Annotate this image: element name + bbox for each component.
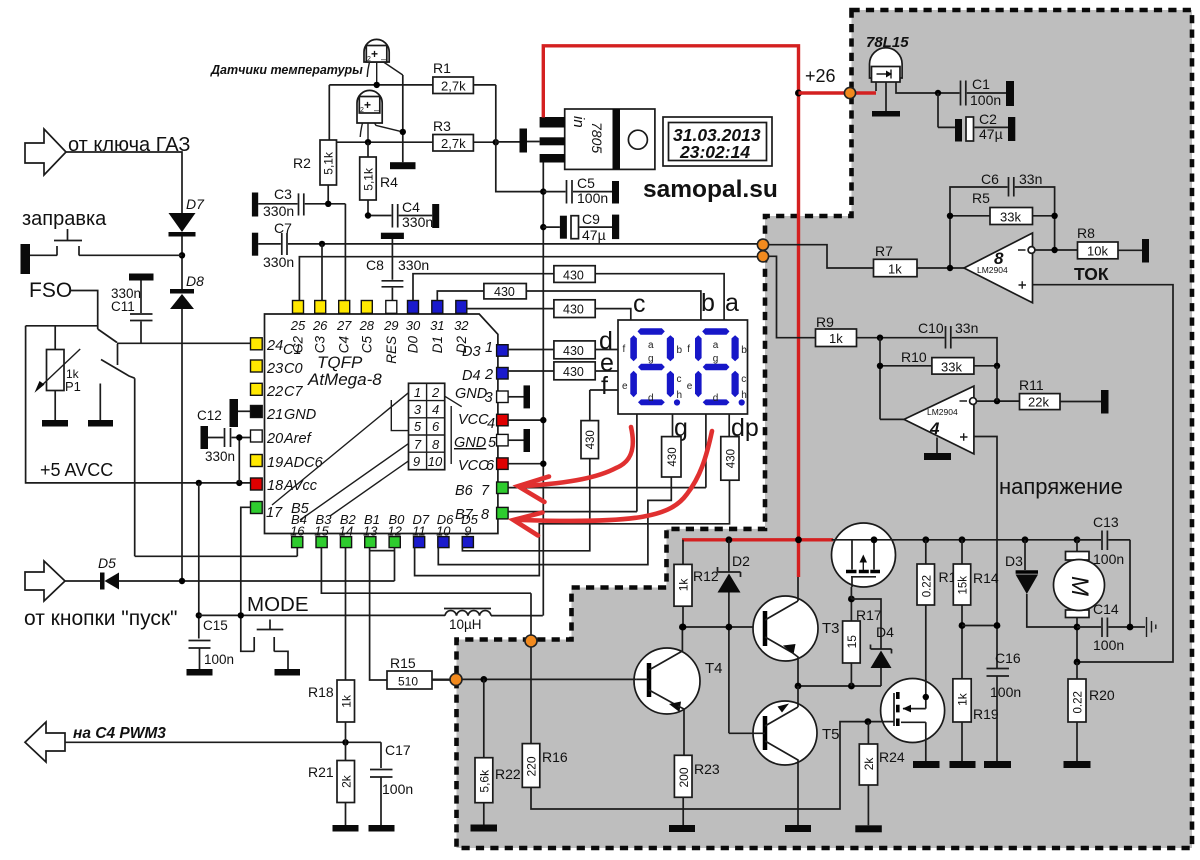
RES line to connector xyxy=(391,400,408,431)
capacitor C4 xyxy=(365,199,439,230)
svg-text:+: + xyxy=(364,98,371,112)
svg-text:R16: R16 xyxy=(542,749,568,765)
op8 output wire xyxy=(1035,249,1078,251)
svg-text:R11: R11 xyxy=(1019,377,1044,393)
resistor R17 xyxy=(843,596,882,686)
diode D3 xyxy=(1005,540,1077,627)
potentiometer P1 xyxy=(35,349,81,394)
svg-text:f: f xyxy=(623,344,626,355)
svg-text:LM2904: LM2904 xyxy=(977,265,1008,275)
connector diagonal pointers xyxy=(272,393,462,520)
svg-text:C4: C4 xyxy=(337,336,352,353)
T3 base wire xyxy=(683,626,765,628)
svg-text:D5: D5 xyxy=(98,555,116,571)
resistor R14 xyxy=(953,540,999,679)
ground bar under S2 xyxy=(88,420,113,427)
svg-text:C8: C8 xyxy=(366,257,384,273)
resistor 430 d (D3) xyxy=(508,341,618,359)
svg-text:1k: 1k xyxy=(956,692,970,706)
resistor R21 xyxy=(308,742,359,831)
svg-text:+26: +26 xyxy=(805,66,836,86)
svg-text:FSO: FSO xyxy=(29,279,72,302)
svg-text:D8: D8 xyxy=(186,273,204,289)
svg-text:C3: C3 xyxy=(313,336,328,354)
svg-text:VCC: VCC xyxy=(458,458,489,474)
7seg digit 1 segments xyxy=(630,328,680,405)
svg-text:0.22: 0.22 xyxy=(1073,691,1085,713)
svg-text:2k: 2k xyxy=(862,757,876,771)
potentiometer P1 top wire xyxy=(26,326,98,350)
+26 rail in power stage xyxy=(833,539,1130,541)
temperature sensor VT2 xyxy=(357,90,403,142)
capacitor C1 xyxy=(935,76,1014,108)
svg-text:C6: C6 xyxy=(981,171,999,187)
svg-text:D3: D3 xyxy=(1005,553,1023,569)
capacitor C15 xyxy=(187,618,235,676)
resistor R22 xyxy=(471,679,521,831)
svg-text:6: 6 xyxy=(486,458,495,474)
date display box xyxy=(663,117,772,166)
svg-text:9: 9 xyxy=(413,454,420,469)
capacitor C3 xyxy=(252,186,346,219)
rail junction dots xyxy=(726,536,733,543)
svg-text:6: 6 xyxy=(432,419,440,434)
svg-text:R20: R20 xyxy=(1089,687,1115,703)
svg-text:20: 20 xyxy=(266,431,283,447)
chip body U2 xyxy=(265,314,498,534)
svg-text:D4: D4 xyxy=(462,368,481,384)
svg-text:C13: C13 xyxy=(1093,514,1119,530)
inductor line to +5 vertical xyxy=(491,615,543,617)
svg-text:c: c xyxy=(741,374,746,385)
nodes on T3/T5 mid rail xyxy=(795,683,802,690)
node R22 on T4 base wire xyxy=(480,676,487,683)
svg-text:ТОК: ТОК xyxy=(1074,264,1109,284)
resistor R19 xyxy=(950,679,999,768)
gray region dashed border xyxy=(457,10,1193,848)
resistor R9 xyxy=(763,256,880,346)
temperature sensor VT1 xyxy=(364,39,403,85)
svg-text:430: 430 xyxy=(563,365,584,379)
svg-text:+5 AVCC: +5 AVCC xyxy=(40,460,113,480)
op8 plus input sense wire xyxy=(1033,285,1174,662)
svg-text:f: f xyxy=(687,344,690,355)
svg-text:C7: C7 xyxy=(274,220,292,236)
svg-text:C0: C0 xyxy=(284,361,303,377)
resistor R15 xyxy=(370,547,456,689)
svg-text:–: – xyxy=(374,105,379,115)
resistor R10 xyxy=(877,338,1000,420)
svg-text:C1: C1 xyxy=(972,76,990,92)
svg-text:C16: C16 xyxy=(995,650,1021,666)
svg-text:100n: 100n xyxy=(970,92,1001,108)
svg-text:R19: R19 xyxy=(973,706,999,722)
svg-text:R9: R9 xyxy=(816,314,834,330)
svg-text:f: f xyxy=(601,372,608,400)
MODE / inductor feed line xyxy=(199,614,445,616)
svg-text:+: + xyxy=(371,47,378,61)
svg-text:Датчики температуры: Датчики температуры xyxy=(210,63,363,77)
svg-text:100n: 100n xyxy=(1093,551,1124,567)
input arrow "от ключа ГАЗ" xyxy=(25,129,66,175)
svg-text:220: 220 xyxy=(525,756,539,776)
svg-text:330n: 330n xyxy=(398,257,429,273)
svg-text:e: e xyxy=(622,381,628,392)
ground bar sensors xyxy=(390,162,416,169)
FSO switch blade xyxy=(98,329,118,365)
ground bar T5 xyxy=(785,825,811,832)
svg-text:5,6k: 5,6k xyxy=(477,769,491,793)
svg-text:330n: 330n xyxy=(402,214,433,230)
svg-text:10: 10 xyxy=(428,454,443,469)
orange junction inductor/R16 xyxy=(525,635,537,647)
resistor R3 xyxy=(337,118,499,151)
capacitor C11 xyxy=(111,274,154,344)
7seg internal segment letters digit2 xyxy=(687,340,748,404)
svg-text:C1: C1 xyxy=(283,342,302,358)
resistor R5 xyxy=(947,190,1058,225)
resistor R18 xyxy=(308,547,355,742)
wire R14 node to op4 sense line xyxy=(962,625,997,627)
svg-text:от кнопки "пуск": от кнопки "пуск" xyxy=(24,607,178,630)
svg-text:430: 430 xyxy=(563,344,584,358)
svg-text:5,1k: 5,1k xyxy=(322,151,336,175)
svg-text:D1: D1 xyxy=(430,336,445,353)
svg-text:R17: R17 xyxy=(856,607,882,623)
resistor 430 dp (D7 pin) xyxy=(415,437,739,576)
svg-text:1: 1 xyxy=(414,385,421,400)
MOSFET Q2 (lower) xyxy=(865,679,945,769)
nodes R12/D2 on T3 base line xyxy=(680,624,687,631)
top pin numbers xyxy=(290,318,470,333)
svg-text:33n: 33n xyxy=(955,320,978,336)
svg-text:18: 18 xyxy=(267,478,283,494)
mid rail T3/T5 xyxy=(798,685,881,687)
P1 ground xyxy=(54,391,56,421)
svg-text:Aref: Aref xyxy=(283,431,313,447)
wire B3 pin15 chain xyxy=(321,547,531,593)
node sensor ground junction xyxy=(400,129,406,135)
op4 plus input wire down to C16 xyxy=(974,437,997,669)
node C15/MODE junction xyxy=(196,612,202,618)
bottom pins 16-9 xyxy=(292,537,474,548)
top pin net names rotated xyxy=(291,336,469,364)
wire C3 net to pin27 xyxy=(344,204,346,301)
MODE push button xyxy=(241,615,300,675)
svg-text:b: b xyxy=(701,289,715,317)
svg-text:430: 430 xyxy=(563,303,584,317)
svg-text:31: 31 xyxy=(430,318,444,333)
svg-text:R7: R7 xyxy=(875,243,893,259)
svg-text:8: 8 xyxy=(432,437,440,452)
svg-text:D7: D7 xyxy=(186,196,205,212)
svg-text:430: 430 xyxy=(494,285,515,299)
svg-text:3: 3 xyxy=(485,390,493,406)
svg-text:C7: C7 xyxy=(284,384,303,400)
svg-text:5: 5 xyxy=(414,419,422,434)
svg-text:c: c xyxy=(677,374,682,385)
svg-text:MODE: MODE xyxy=(247,593,309,616)
svg-text:200: 200 xyxy=(677,767,691,787)
svg-text:30: 30 xyxy=(406,318,421,333)
FSO wire xyxy=(70,291,98,330)
transistor T5 (PNP) xyxy=(729,686,840,825)
svg-text:ADC6: ADC6 xyxy=(283,455,324,471)
transistor T3 (NPN) xyxy=(753,577,840,686)
wire out node to R10/C10 xyxy=(996,366,998,401)
svg-text:33k: 33k xyxy=(941,360,962,375)
transistor T4 (NPN) xyxy=(634,624,723,756)
capacitor C13 xyxy=(1077,514,1130,567)
svg-text:5,1k: 5,1k xyxy=(362,167,376,191)
zener D2 xyxy=(718,540,751,734)
svg-text:2: 2 xyxy=(360,107,364,114)
svg-text:a: a xyxy=(725,289,739,317)
svg-text:B7: B7 xyxy=(455,507,474,523)
svg-text:2k: 2k xyxy=(340,774,354,788)
svg-text:1k: 1k xyxy=(888,262,902,277)
wire switch output down to B4 line xyxy=(134,378,136,556)
wire FSO net to pin24 C1 xyxy=(117,342,251,344)
svg-text:15: 15 xyxy=(314,524,329,539)
svg-text:8: 8 xyxy=(481,507,489,523)
wire D8 down to pusk node xyxy=(181,309,183,581)
svg-text:d: d xyxy=(713,393,719,404)
node пуск/D8 junction xyxy=(179,578,185,584)
op-amp U1.1 voltage xyxy=(880,386,976,454)
svg-text:330n: 330n xyxy=(263,254,294,270)
svg-text:32: 32 xyxy=(454,318,469,333)
svg-text:2,7k: 2,7k xyxy=(441,79,466,94)
wire B6 pin7 to display xyxy=(508,487,706,489)
svg-text:C10: C10 xyxy=(918,320,944,336)
svg-text:4: 4 xyxy=(487,416,495,432)
resistor R7 xyxy=(763,243,964,277)
gray analog/power region fill xyxy=(457,10,1193,848)
wire +5 feed down to bias (R16 orange node) xyxy=(530,593,532,743)
svg-text:T5: T5 xyxy=(822,726,840,743)
input arrow "от кнопки пуск" xyxy=(25,561,65,601)
wire pin6 VCC to +5 xyxy=(508,463,543,465)
ground symbol right xyxy=(1147,617,1156,637)
svg-text:R3: R3 xyxy=(433,118,451,134)
svg-text:14: 14 xyxy=(339,524,353,539)
svg-text:1k: 1k xyxy=(829,331,843,346)
capacitor C6 feedback xyxy=(950,171,1055,268)
svg-text:R5: R5 xyxy=(972,190,990,206)
op4 ground stub xyxy=(924,438,951,461)
resistor 430 c (D2) xyxy=(467,300,631,320)
svg-text:22k: 22k xyxy=(1028,395,1049,410)
svg-text:RES: RES xyxy=(384,336,399,364)
resistor R1 xyxy=(329,60,496,94)
7seg digit 2 segments xyxy=(695,328,745,405)
C12/Aref node down to +5 rail xyxy=(238,438,240,483)
nodes on +5V line (C5, C9) xyxy=(540,188,546,194)
wire pin17 B5 to MODE node xyxy=(241,507,251,615)
svg-text:C12: C12 xyxy=(197,408,222,423)
svg-text:C5: C5 xyxy=(577,175,595,191)
svg-text:R24: R24 xyxy=(879,749,905,765)
svg-text:C3: C3 xyxy=(274,186,292,202)
wire D7 to zapravka node and D8 xyxy=(181,237,183,290)
svg-text:D0: D0 xyxy=(406,336,421,354)
7805 gnd bar xyxy=(496,129,540,153)
svg-text:R18: R18 xyxy=(308,684,334,700)
capacitor C14 xyxy=(1077,540,1145,653)
S2 lower contact to ground xyxy=(99,401,101,421)
svg-text:LM2904: LM2904 xyxy=(927,407,958,417)
svg-text:1k: 1k xyxy=(677,578,691,592)
svg-text:16: 16 xyxy=(290,524,305,539)
svg-text:2: 2 xyxy=(431,385,440,400)
svg-text:510: 510 xyxy=(398,675,418,689)
bus wire pin25 net xyxy=(299,257,763,301)
svg-text:GND: GND xyxy=(284,407,316,423)
svg-text:D4: D4 xyxy=(876,624,894,640)
svg-text:100n: 100n xyxy=(577,190,608,206)
resistor R8 xyxy=(1077,225,1149,263)
R1/R3 pull-up to +5 xyxy=(496,85,544,192)
svg-text:R4: R4 xyxy=(380,174,398,190)
svg-text:100n: 100n xyxy=(382,781,413,797)
svg-text:R23: R23 xyxy=(694,761,720,777)
capacitor C7 xyxy=(252,220,763,270)
capacitor C17 xyxy=(369,742,414,832)
resistor 430 e (D4) xyxy=(508,362,618,380)
svg-text:10µH: 10µH xyxy=(449,617,482,632)
svg-text:AtMega-8: AtMega-8 xyxy=(307,370,382,389)
svg-text:B6: B6 xyxy=(455,483,474,499)
svg-text:R22: R22 xyxy=(495,766,521,782)
svg-text:T4: T4 xyxy=(705,660,723,677)
svg-text:VCC: VCC xyxy=(458,412,489,428)
resistor R23 xyxy=(669,755,720,832)
orange junction bus C2 net xyxy=(757,251,768,262)
op-amp U1.2 current (TOK) xyxy=(964,233,1035,303)
tie B0/B1 xyxy=(370,547,395,581)
svg-text:h: h xyxy=(741,390,747,401)
svg-text:C11: C11 xyxy=(111,299,135,314)
+5 AVCC left rail xyxy=(26,326,252,483)
svg-text:C2: C2 xyxy=(979,111,997,127)
svg-text:7: 7 xyxy=(414,437,422,452)
svg-text:GND: GND xyxy=(455,386,487,402)
capacitor C10 xyxy=(877,320,997,366)
7805 regulator xyxy=(540,109,655,169)
B4 tie line xyxy=(135,547,298,556)
svg-text:g: g xyxy=(713,354,719,365)
svg-text:C15: C15 xyxy=(203,618,228,633)
svg-text:a: a xyxy=(713,340,719,351)
ground bar pin21 xyxy=(230,399,251,427)
svg-text:22: 22 xyxy=(266,384,283,400)
svg-text:13: 13 xyxy=(363,524,378,539)
svg-text:100n: 100n xyxy=(990,684,1021,700)
svg-text:2: 2 xyxy=(484,367,493,383)
red rail in power stage xyxy=(682,538,833,541)
svg-text:10: 10 xyxy=(436,524,451,539)
resistor R11 xyxy=(1019,377,1109,414)
op4 output wire xyxy=(976,400,1019,402)
svg-text:R21: R21 xyxy=(308,764,334,780)
svg-text:R2: R2 xyxy=(293,155,311,171)
svg-text:11: 11 xyxy=(412,524,426,539)
svg-text:21: 21 xyxy=(266,407,283,423)
resistor R2 xyxy=(293,85,337,204)
svg-text:R12: R12 xyxy=(693,568,719,584)
right pin labels xyxy=(454,340,497,523)
svg-text:430: 430 xyxy=(725,449,737,468)
bottom pin labels xyxy=(291,512,479,527)
7seg internal segment letters digit1 xyxy=(622,340,683,404)
junction dots on +5 rail xyxy=(196,480,202,486)
svg-text:33n: 33n xyxy=(1019,171,1042,187)
switch S2 blade xyxy=(100,360,134,401)
resistor R4 xyxy=(360,142,398,215)
7-segment display body xyxy=(618,320,748,414)
node заправка/D7 junction xyxy=(179,252,185,258)
wire pin4 VCC to +5 xyxy=(508,419,543,421)
svg-text:27: 27 xyxy=(336,318,352,333)
motor M xyxy=(1054,540,1105,666)
svg-text:4: 4 xyxy=(929,419,940,438)
zener D4 xyxy=(851,599,894,686)
resistor R16 xyxy=(522,744,568,788)
capacitor C2 xyxy=(938,93,1015,142)
resistor 430 a (D0) xyxy=(413,266,724,320)
svg-text:на C4 PWM3: на C4 PWM3 xyxy=(73,725,166,742)
svg-text:e: e xyxy=(687,381,693,392)
svg-text:C14: C14 xyxy=(1093,601,1119,617)
svg-text:c: c xyxy=(633,290,646,318)
left pins 24-17 xyxy=(251,338,263,514)
svg-text:T3: T3 xyxy=(822,620,840,637)
svg-text:430: 430 xyxy=(585,430,597,449)
+5V vertical from 7805 xyxy=(542,163,544,616)
svg-text:23:02:14: 23:02:14 xyxy=(679,142,750,162)
svg-text:15: 15 xyxy=(845,635,859,649)
svg-text:7805: 7805 xyxy=(589,122,605,153)
svg-text:d: d xyxy=(648,393,654,404)
svg-text:47µ: 47µ xyxy=(979,126,1003,142)
svg-text:R15: R15 xyxy=(390,655,416,671)
svg-text:samopal.su: samopal.su xyxy=(643,176,778,203)
svg-text:430: 430 xyxy=(563,269,584,283)
output arrow "на C4 PWM3" xyxy=(25,722,65,762)
gnd bar pin5 xyxy=(508,429,530,452)
svg-text:C5: C5 xyxy=(359,336,374,354)
ISP connector 1-10 xyxy=(409,383,445,469)
wire from GAZ arrow to D7 xyxy=(66,152,182,213)
node R18/R21 PWM junction xyxy=(342,739,348,745)
svg-text:h: h xyxy=(677,390,683,401)
svg-text:заправка: заправка xyxy=(22,208,107,230)
svg-text:15k: 15k xyxy=(958,576,970,595)
diode D5 xyxy=(65,555,119,590)
resistor 430 b (D1) xyxy=(437,284,701,321)
svg-text:17: 17 xyxy=(266,505,283,521)
sensors ground wire xyxy=(402,75,404,162)
svg-text:0.22: 0.22 xyxy=(921,575,933,597)
red wire +26 to 78L15 xyxy=(799,91,877,94)
svg-text:b: b xyxy=(677,345,683,356)
svg-text:100n: 100n xyxy=(1093,637,1124,653)
wire B7 pin8 to display xyxy=(508,511,637,513)
svg-text:C4: C4 xyxy=(402,199,420,215)
svg-text:D3: D3 xyxy=(462,344,481,360)
capacitor C9 xyxy=(543,211,619,243)
